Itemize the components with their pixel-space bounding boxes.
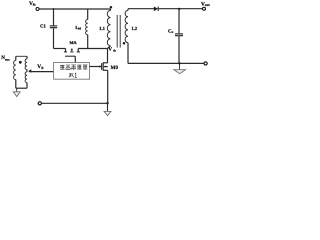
transformer secondary L2 bbox=[125, 9, 128, 64]
transistor M0 bbox=[90, 49, 108, 104]
label Vout bbox=[201, 1, 210, 7]
wire primary ground rail bbox=[42, 102, 108, 104]
wire control unit to M0 gate bbox=[90, 66, 100, 68]
svg-text:MA: MA bbox=[70, 40, 78, 45]
svg-text:ds: ds bbox=[113, 48, 117, 52]
svg-text:out: out bbox=[205, 3, 211, 7]
label C1 bbox=[40, 24, 46, 30]
resistor divider aux bbox=[25, 56, 27, 88]
wire C1 bottom to MA bbox=[54, 48, 66, 50]
svg-text:aux: aux bbox=[5, 57, 10, 61]
label M0 bbox=[111, 65, 119, 71]
ground primary bbox=[104, 103, 111, 115]
polarity dot L2 bbox=[123, 42, 126, 45]
node output return terminal bbox=[204, 62, 207, 65]
junction dot M0 source bbox=[106, 102, 108, 104]
svg-text:V: V bbox=[108, 47, 112, 53]
label L2 bbox=[132, 26, 138, 32]
text control unit line2 bbox=[69, 73, 77, 77]
label Vin bbox=[29, 1, 36, 7]
diode D1 bbox=[154, 7, 203, 12]
ground secondary bbox=[174, 63, 186, 73]
ground aux bbox=[13, 88, 20, 96]
polarity dot L1 bbox=[110, 6, 113, 9]
label LM bbox=[75, 25, 81, 31]
winding Naux bbox=[14, 56, 27, 88]
svg-text:M0: M0 bbox=[111, 65, 119, 71]
wire MA to switching node bbox=[78, 48, 107, 50]
wire secondary bottom bbox=[128, 62, 204, 64]
label Co bbox=[168, 29, 174, 35]
wire primary top rail bbox=[39, 8, 111, 10]
label Naux bbox=[1, 55, 10, 61]
wire aux bottom bbox=[16, 87, 27, 89]
junction C1 top bbox=[53, 8, 55, 10]
junction dot Co bottom bbox=[178, 62, 180, 64]
capacitor Co bbox=[175, 9, 183, 63]
label L1 bbox=[100, 26, 106, 32]
polarity dot Naux bbox=[19, 61, 22, 64]
svg-text:in: in bbox=[33, 3, 36, 7]
label MA bbox=[70, 40, 78, 45]
node Vds bbox=[108, 47, 116, 53]
wire secondary top rail bbox=[128, 8, 154, 10]
text control unit line1 glyphs bbox=[60, 65, 87, 70]
transistor MA bbox=[64, 49, 80, 63]
node Vout terminal bbox=[203, 7, 206, 10]
node primary return terminal bbox=[38, 102, 41, 105]
node Vin terminal bbox=[36, 8, 39, 11]
capacitor C1 bbox=[50, 9, 57, 49]
node VB tap arrow bbox=[28, 69, 31, 72]
inductor LM bbox=[86, 9, 88, 49]
svg-text:M: M bbox=[78, 27, 81, 31]
label VB bbox=[37, 64, 44, 70]
svg-text:L2: L2 bbox=[132, 26, 138, 32]
wire VB to control unit bbox=[29, 71, 54, 73]
transformer core bbox=[116, 15, 118, 48]
svg-text:B: B bbox=[41, 66, 44, 70]
block switch control unit 1 bbox=[54, 63, 90, 80]
transformer primary L1 bbox=[107, 9, 110, 49]
svg-text:o: o bbox=[172, 30, 174, 34]
svg-text:L1: L1 bbox=[100, 26, 106, 32]
junction dot Co top bbox=[178, 8, 180, 10]
svg-text:C1: C1 bbox=[40, 24, 46, 30]
